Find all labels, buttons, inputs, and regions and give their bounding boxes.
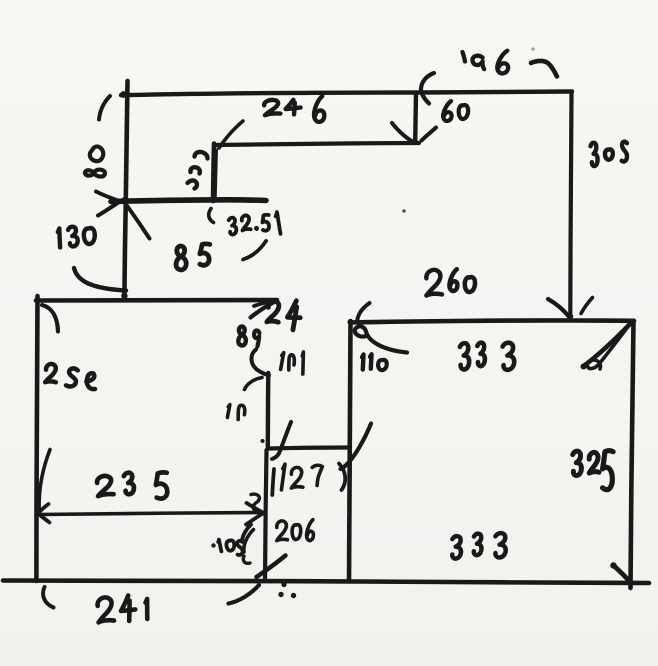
dimension label 89 — [238, 326, 259, 346]
wire: small box left wall x=265 — [265, 450, 267, 581]
leader arc for 110 label — [348, 319, 408, 353]
tilde mark after 1a6 — [531, 61, 557, 77]
swoosh at right-room top-right corner — [581, 324, 631, 370]
wire: top wall line — [120, 91, 572, 98]
dimension label 60 — [443, 101, 468, 121]
faint mark above tilde — [531, 47, 534, 50]
diagonal stroke from junction down-right — [127, 205, 150, 239]
wire: horizontal wall y=144 — [214, 143, 419, 145]
dimension label 171 — [280, 352, 304, 374]
ink dots below bottom line — [278, 582, 296, 598]
dimension label 260 — [426, 269, 475, 295]
dimension label 325 — [573, 451, 613, 490]
dimension line 235 y=513 — [39, 513, 261, 515]
dimension label 24 — [267, 300, 302, 330]
slash leader above small box — [272, 422, 291, 459]
arrow hook at top junction x=417 — [421, 73, 434, 104]
dimension label 127 — [272, 464, 345, 496]
arc tick left of x=268 wall top — [245, 378, 263, 390]
dimension label 235 — [97, 472, 169, 499]
leader curve to 246 label — [219, 121, 243, 148]
hook at top of x=268 wall — [251, 350, 269, 376]
squiggle break marks near x=195 — [188, 152, 208, 189]
arrow tick at bottom-right corner — [610, 562, 630, 582]
dimension label 17 — [227, 404, 245, 419]
swoosh right of small box top — [341, 424, 372, 470]
wire: mid-left vertical wall x=125 — [121, 200, 127, 299]
dimension label 206 — [277, 520, 314, 541]
dimension label 85 — [176, 244, 210, 270]
dimension label 246 — [264, 96, 325, 122]
wire: vertical wall x=268 above small box — [266, 373, 271, 447]
tick below bottom line left — [43, 587, 53, 608]
dimension label 258 — [45, 364, 96, 390]
arrow ticks at junction (125,200) — [96, 192, 120, 216]
arc right of 85 label — [243, 241, 266, 260]
dimension arrow 60 vertical — [392, 93, 436, 145]
arrowhead left end of 235 line — [38, 504, 50, 523]
leader arc above left 235 arrow — [39, 450, 50, 510]
bracket before 32.51 — [209, 209, 214, 223]
slash at small box bottom-left — [257, 556, 286, 578]
wire: horizontal wall y=200 — [111, 197, 266, 204]
wire: right room top wall y=321 — [350, 320, 634, 322]
corner arc inside left room top-left — [42, 305, 58, 332]
wire: left room top wall y=300 — [36, 297, 277, 302]
dimension label 333 top — [460, 343, 514, 370]
dimension label 130 — [58, 226, 96, 247]
curl below 235 arrowhead — [244, 530, 254, 553]
wire: right room / small box shared vertical x=349 — [349, 321, 351, 581]
wire: short vertical wall x=213 — [210, 144, 216, 204]
curl above 235 arrowhead — [251, 494, 259, 512]
wire: left room left wall x=37 — [36, 296, 37, 581]
faint dot middle — [402, 209, 406, 213]
wire: right room right wall x=632 — [631, 321, 634, 588]
arc below-left of box bottom corner — [229, 585, 260, 604]
tick above right-room top-left corner — [357, 303, 369, 321]
arrowhead at bottom of x=570 wall — [548, 298, 593, 320]
arc tick below top-left wall corner — [99, 96, 110, 120]
dimension label 241 — [97, 595, 148, 622]
arrowhead at right end of left-room top wall — [251, 301, 278, 318]
arrowhead right end of 235 line — [246, 503, 264, 525]
dimension label 80 rotated — [85, 144, 107, 176]
dimension label 305 — [590, 141, 628, 166]
wire: bottom wall line — [3, 581, 649, 584]
wire: upper-left vertical wall x=126 — [126, 81, 128, 200]
dimension label 1a6 (196) — [463, 51, 509, 74]
small ink dot left of wall x=268 — [261, 439, 265, 443]
dimension label 32.51 — [229, 212, 282, 235]
dimension label 333 bottom — [451, 533, 506, 559]
dimension label 10.5 — [211, 525, 251, 564]
dimension label 110 — [362, 354, 387, 370]
arc below 130 label — [74, 268, 126, 291]
wire: right vertical wall x=570 — [570, 93, 571, 314]
wire: small box top wall y=448 — [269, 448, 350, 449]
